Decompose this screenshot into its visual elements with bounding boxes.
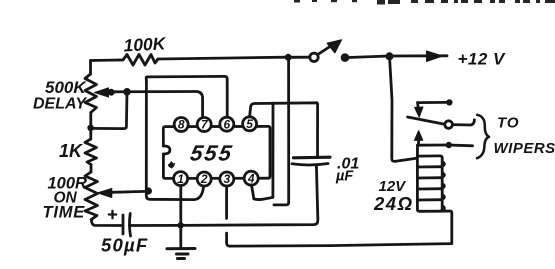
ground symbol (167, 249, 195, 259)
junction dot (386, 52, 394, 60)
svg-text:DELAY: DELAY (33, 96, 87, 113)
switch S1 blade with arrow (319, 47, 330, 54)
svg-text:8: 8 (178, 118, 185, 132)
capacitor C2 .01uF plates (294, 156, 331, 160)
pin 7 circle (197, 118, 211, 132)
555 IC U1 body (163, 126, 270, 178)
wire pin 3 output down (225, 186, 228, 218)
wire ground rail 50uF to 01 cap (130, 218, 318, 226)
pin 2 circle (197, 172, 211, 186)
relay K1 armature up arrow (414, 131, 422, 141)
potentiometer R4 wiper arrow (105, 191, 112, 194)
wire wiper to pin 7 (111, 92, 203, 118)
wire pin 1 to ground (179, 186, 182, 248)
svg-text:100K: 100K (123, 33, 167, 55)
wire +12V drop to relay coil (390, 56, 417, 161)
potentiometer R4 100R body (85, 172, 98, 220)
wire vertical pins4-5 loop (271, 103, 274, 197)
switch S1 pivot dot (341, 53, 350, 62)
pin 3 circle (220, 172, 234, 186)
svg-text:TO: TO (497, 115, 520, 132)
resistor R1 100K (120, 55, 158, 66)
svg-text:24Ω: 24Ω (373, 193, 414, 214)
svg-text:+12 V: +12 V (458, 50, 507, 69)
brace to wipers (477, 115, 489, 158)
relay K1 blade circle (445, 121, 453, 129)
potentiometer R2 500K body (85, 74, 97, 113)
+12V arrowhead (427, 51, 443, 62)
potentiometer R2 wiper arrow (104, 90, 111, 93)
relay K1 lower contact line (418, 144, 446, 147)
capacitor C1 50uF plates (122, 215, 125, 234)
junction dot on wiper wire (108, 89, 115, 96)
svg-text:3: 3 (223, 172, 230, 186)
wire bracket vertical down to pin 2 (146, 81, 203, 200)
relay K1 lower contact dot (446, 142, 452, 148)
pin 1 circle (174, 172, 188, 186)
wire left vertical from rail to pot (89, 61, 92, 75)
cut-off headline text fragments at top edge (294, 0, 555, 5)
pin 8 circle (174, 118, 188, 132)
svg-text:6: 6 (223, 117, 230, 131)
svg-text:µF: µF (335, 169, 354, 185)
relay K1 armature down arrow (416, 103, 419, 107)
wire rail switch to +12V (345, 56, 390, 58)
relay K1 coil body (417, 156, 442, 211)
svg-text:WIPERS: WIPERS (494, 140, 555, 157)
wire blade circle to brace (453, 120, 475, 125)
wire pot bottom to 1K (89, 113, 92, 140)
555 IC notch on left edge (163, 146, 170, 154)
wire rail drop at x288 (274, 57, 289, 205)
pin 4 circle (244, 171, 258, 185)
relay K1 upper contact dot (446, 99, 452, 105)
pin 6 circle (220, 117, 234, 131)
svg-text:1K: 1K (59, 141, 84, 161)
svg-text:555: 555 (188, 141, 235, 166)
wire pin 3 output continues to relay (227, 211, 452, 246)
svg-text:50µF: 50µF (101, 235, 148, 256)
capacitor C1 50uF plus sign (109, 211, 116, 218)
svg-text:TIME: TIME (43, 204, 86, 222)
wire pins 2-6 bracket (146, 76, 227, 117)
relay K1 upper contact line (418, 101, 446, 104)
wire armature to coil top (416, 145, 419, 157)
wire 100R wiper to pins 2-6 node (112, 190, 147, 194)
wire C2 bottom to ground rail (316, 165, 317, 218)
wire dot down and left to pot bottom (91, 92, 127, 129)
wire top rail left segment (91, 59, 121, 62)
pin 5 circle (243, 117, 257, 131)
wire pin 5 up and right to control cap (250, 103, 318, 156)
wire rail to arrow (390, 54, 448, 57)
junction dot at pin1 ground (177, 222, 183, 228)
svg-text:500K: 500K (45, 78, 87, 97)
switch S1 open contact circle (310, 53, 318, 61)
junction dot (285, 54, 292, 61)
svg-text:5: 5 (246, 117, 253, 131)
wire pin 4 stub (251, 185, 272, 200)
svg-text:4: 4 (247, 171, 255, 185)
junction dot (145, 187, 152, 194)
relay K1 blade to circle (408, 117, 445, 124)
555 IC pin1 asterisk (168, 162, 174, 168)
wire pot bottom to 50uF (91, 220, 121, 226)
svg-text:2: 2 (200, 172, 208, 186)
wire lower contact to brace (449, 144, 473, 148)
wire rail dot to switch contact (288, 56, 310, 59)
svg-text:1: 1 (177, 172, 184, 186)
relay K1 coil loops (417, 167, 442, 200)
wire 1K to pot (90, 165, 93, 173)
resistor R3 1K (85, 139, 97, 165)
wire top rail to switch (158, 57, 287, 59)
